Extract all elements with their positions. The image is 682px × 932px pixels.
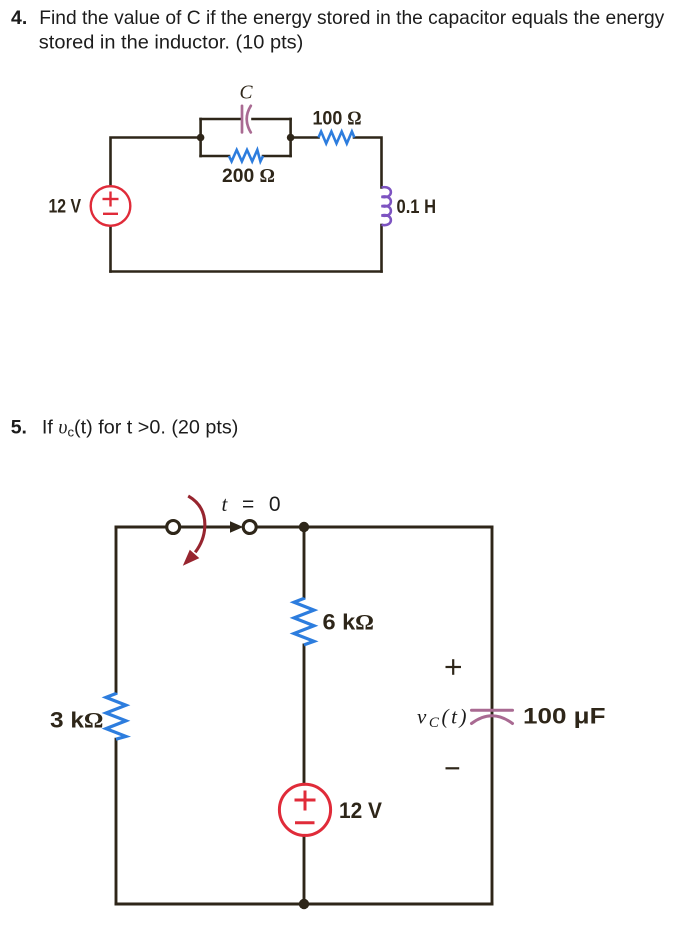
svg-text:6 kΩ: 6 kΩ [323,609,375,634]
resistor 200 ohm [229,150,263,162]
switch terminal left [167,521,180,534]
svg-text:If υc(t) for t >0. (20 pts): If υc(t) for t >0. (20 pts) [42,417,239,440]
wire: top-left corner to left switch terminal [116,526,167,529]
wire: bottom [116,903,492,906]
wire: box bottom side left of 200ohm resistor [201,155,229,158]
wire: top from middle node to top-right corner [304,526,492,529]
wire: right side below inductor [380,225,383,272]
wire: left side below source to bottom-left corner [109,226,112,272]
plus polarity mark [446,659,462,675]
switch arrow head [230,521,243,533]
svg-text:0.1 H: 0.1 H [397,196,437,218]
wire: switch blade with arrow [180,526,231,529]
svg-text:stored in the inductor. (10 pt: stored in the inductor. (10 pts) [39,32,304,54]
resistor 100 ohm [319,132,355,144]
svg-text:3 kΩ: 3 kΩ [50,708,104,733]
wire: box bottom side right of 200ohm resistor [263,155,291,158]
svg-text:12 V: 12 V [49,196,82,218]
capacitor C2 100uF [472,710,513,723]
capacitor C1 [242,106,251,133]
svg-text:100 μF: 100 μF [523,704,606,729]
wire: parallel box left side [199,119,202,156]
wire: bottom from left to right [111,270,382,273]
svg-text:4.: 4. [11,7,27,29]
node junction left of parallel box [197,134,205,142]
svg-text:Find the value of C if the ene: Find the value of C if the energy stored… [39,7,664,29]
svg-text:5.: 5. [11,417,27,439]
wire: middle branch top to 6k resistor [303,527,306,598]
svg-text:t = 0: t = 0 [222,492,281,516]
switch opening curved arrow [188,496,205,552]
svg-text:12 V: 12 V [339,798,382,823]
svg-text:200 Ω: 200 Ω [222,165,275,187]
svg-text:vC(t): vC(t) [417,705,467,732]
wire: middle branch below source [303,835,306,904]
wire: right side [491,527,494,904]
wire: box top side right of capacitor [253,118,291,121]
svg-text:100 Ω: 100 Ω [313,108,362,130]
resistor 6 kohm [294,598,314,645]
wire: from right node to 100ohm resistor [291,136,319,139]
inductor 0.1 H [382,187,391,225]
wire: left side [115,527,118,693]
switch terminal right [243,521,256,534]
resistor 3 kohm [106,693,126,739]
node junction right of parallel box [287,134,295,142]
voltage source V2 12V [279,784,330,835]
problem 5 text [11,417,239,440]
svg-text:C: C [240,83,254,104]
node junction top middle [299,522,309,532]
minus polarity mark [446,767,460,769]
problem 4 text [11,7,665,54]
node junction bottom middle [299,899,309,909]
voltage source V1 12V [91,186,131,226]
wire: parallel box right side [289,119,292,156]
wire: top-left from source to parallel box [111,138,201,187]
wire: middle branch between 6k and source [303,645,306,784]
wire: box top side left of capacitor [201,118,240,121]
wire: from 100ohm resistor to top-right corner and down [354,138,382,188]
wire: right switch terminal to middle node [256,526,304,529]
